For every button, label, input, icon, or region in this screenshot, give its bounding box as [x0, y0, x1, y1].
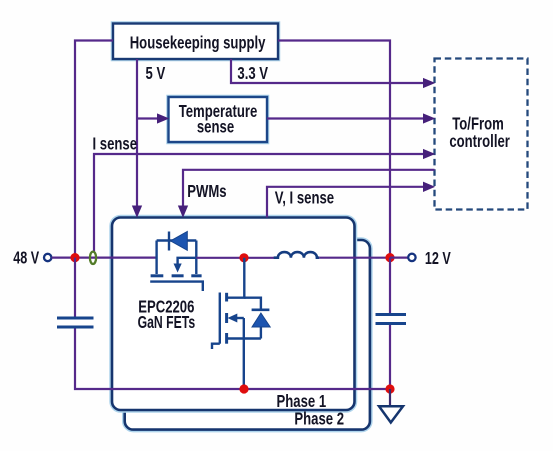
wire: PWM line from controller down into phase 1 [183, 170, 435, 207]
node: low-side source on ground rail [239, 384, 248, 393]
capacitor C1 (input) [57, 318, 94, 327]
wire: right capacitor to ground node [389, 325, 391, 389]
source lead vertical [155, 241, 157, 275]
wire: right capacitor branch [389, 258, 391, 313]
temperature sense box [169, 97, 268, 142]
transistor Q1 (high-side GaN FET) [157, 241, 197, 275]
node: 12 V junction [385, 253, 394, 262]
svg-text:controller: controller [449, 132, 510, 151]
phase 2 box [125, 240, 370, 430]
inductor L1 [274, 252, 320, 258]
housekeeping supply box [113, 24, 278, 60]
arrow: temp sense into controller [424, 114, 435, 123]
wire: switch node (Q1 drain to inductor) [196, 257, 276, 259]
arrow: 3.3 V into controller [424, 79, 435, 88]
wire: left capacitor to ground rail [75, 329, 244, 390]
wire: inductor to 12 V node [319, 257, 390, 259]
wire: stub to ground symbol [389, 389, 391, 406]
phase 1 box [112, 218, 355, 411]
arrow: 5 V into phase box [133, 206, 142, 217]
terminal: 48 V input [44, 254, 51, 261]
channel bars of Q2 [225, 293, 228, 344]
gate bar [219, 293, 221, 344]
svg-text:Phase 2: Phase 2 [294, 410, 344, 429]
svg-text:48 V: 48 V [13, 249, 39, 269]
terminal: 12 V output [408, 254, 415, 261]
wire: housekeeping left rail down to 48V node [75, 41, 113, 258]
svg-text:3.3 V: 3.3 V [237, 64, 268, 83]
wire: 48 V rail into phase 1 [52, 257, 158, 259]
controller box (dashed) To/From controller [435, 59, 528, 210]
top link through body diode [157, 239, 197, 241]
svg-text:12 V: 12 V [425, 249, 451, 269]
transistor Q2 (low-side GaN FET) [212, 258, 261, 389]
capacitor C2 (output) [376, 315, 407, 324]
body connection with arrow [235, 317, 244, 319]
svg-text:I sense: I sense [93, 135, 138, 154]
arrow: V, I sense into controller [424, 182, 435, 191]
bottom contact rail (source and diode anode) [226, 337, 261, 339]
wire: housekeeping right rail to 12V node [278, 41, 390, 258]
body diode D2 of Q2 [244, 298, 270, 339]
wire: bottom ground rail right section [244, 388, 390, 390]
drain lead vertical [195, 241, 197, 275]
drain lead from switch node [227, 258, 244, 298]
gate lead [212, 344, 220, 349]
arrow: PWMs into phase box [179, 206, 188, 217]
arrow: into temperature sense [158, 114, 169, 123]
source lead down to ground rail [243, 318, 245, 389]
current sense loop (green ellipse) [90, 252, 96, 264]
wire: 12 V node to terminal [390, 257, 408, 259]
gate bar of Q1 [150, 282, 203, 291]
wire: temperature sense output to controller [267, 117, 424, 119]
node: switch node junction [239, 253, 248, 262]
svg-text:5 V: 5 V [146, 64, 166, 83]
drain to switch node with body arrow [178, 258, 197, 265]
body arrow of Q1 (points down) [174, 264, 182, 273]
wire: 3.3 V line to controller [231, 59, 424, 83]
svg-text:GaN FETs: GaN FETs [138, 313, 196, 333]
svg-text:PWMs: PWMs [187, 182, 227, 201]
svg-text:sense: sense [197, 118, 234, 137]
wire: branch to temperature sense [137, 117, 158, 119]
arrow: I sense into controller [424, 150, 435, 159]
svg-text:Housekeeping supply: Housekeeping supply [130, 34, 266, 53]
wire: I sense line to controller [94, 154, 424, 252]
wire: 5 V line down into phase 1 [136, 59, 138, 207]
channel contact bars of Q1 [151, 274, 202, 277]
body arrow of Q2 (points left) [228, 314, 238, 323]
wire: V, I sense line from phase 1 to controller [267, 187, 424, 218]
wire: left capacitor branch top [74, 258, 76, 317]
svg-text:V, I sense: V, I sense [275, 189, 335, 208]
body diode D1 of Q1 [169, 232, 187, 251]
node: ground junction [385, 384, 394, 393]
node: 48 V junction [70, 253, 79, 262]
ground symbol [379, 406, 403, 422]
